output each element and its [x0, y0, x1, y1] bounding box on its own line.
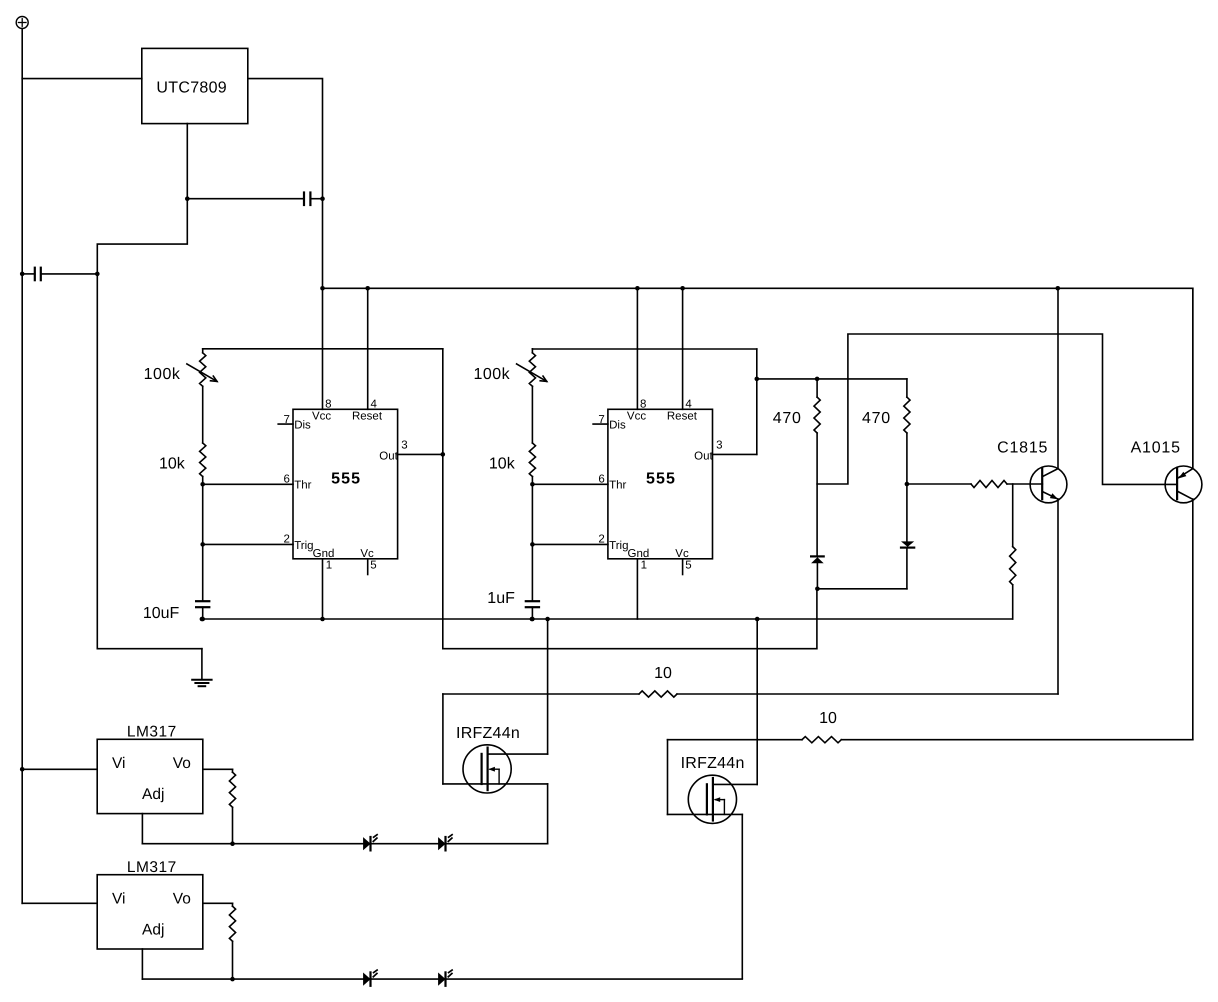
svg-text:UTC7809: UTC7809 — [156, 80, 227, 97]
svg-text:Out: Out — [694, 450, 713, 462]
svg-text:Vo: Vo — [173, 755, 191, 772]
svg-text:4: 4 — [371, 398, 378, 410]
svg-text:Vcc: Vcc — [312, 411, 331, 423]
svg-text:Vo: Vo — [173, 890, 191, 907]
svg-text:1: 1 — [326, 560, 332, 572]
svg-text:10k: 10k — [489, 456, 516, 473]
svg-text:100k: 100k — [473, 366, 510, 383]
svg-text:LM317: LM317 — [127, 724, 177, 741]
svg-text:Adj: Adj — [142, 921, 164, 938]
svg-text:10uF: 10uF — [143, 605, 180, 622]
svg-text:Trig: Trig — [294, 540, 313, 552]
svg-text:100k: 100k — [144, 366, 181, 383]
svg-text:3: 3 — [716, 439, 722, 451]
svg-text:LM317: LM317 — [127, 859, 177, 876]
svg-text:3: 3 — [401, 439, 407, 451]
svg-text:10: 10 — [654, 665, 672, 682]
svg-text:10: 10 — [819, 710, 837, 727]
svg-text:Vi: Vi — [112, 890, 126, 907]
svg-text:Thr: Thr — [609, 480, 626, 492]
svg-text:5: 5 — [370, 560, 376, 572]
svg-text:Dis: Dis — [294, 419, 311, 431]
svg-text:555: 555 — [646, 470, 676, 487]
svg-text:555: 555 — [331, 470, 361, 487]
svg-text:Trig: Trig — [609, 540, 628, 552]
svg-text:Adj: Adj — [142, 786, 164, 803]
svg-text:Reset: Reset — [352, 411, 383, 423]
svg-text:Out: Out — [379, 450, 398, 462]
svg-text:A1015: A1015 — [1131, 439, 1181, 456]
svg-text:Gnd: Gnd — [628, 548, 650, 560]
svg-text:5: 5 — [685, 560, 691, 572]
svg-text:10k: 10k — [159, 456, 186, 473]
svg-text:1uF: 1uF — [487, 590, 515, 607]
svg-text:C1815: C1815 — [997, 439, 1048, 456]
svg-text:Gnd: Gnd — [313, 548, 335, 560]
svg-text:Dis: Dis — [609, 419, 626, 431]
svg-text:470: 470 — [773, 410, 802, 427]
svg-text:IRFZ44n: IRFZ44n — [456, 725, 520, 742]
svg-text:4: 4 — [685, 398, 692, 410]
svg-text:Vcc: Vcc — [627, 411, 646, 423]
svg-text:1: 1 — [641, 560, 647, 572]
svg-text:IRFZ44n: IRFZ44n — [681, 755, 745, 772]
svg-text:470: 470 — [862, 410, 891, 427]
svg-text:8: 8 — [640, 398, 646, 410]
svg-text:Vi: Vi — [112, 755, 126, 772]
svg-text:Thr: Thr — [294, 480, 311, 492]
svg-text:Reset: Reset — [667, 411, 698, 423]
svg-text:8: 8 — [325, 398, 331, 410]
